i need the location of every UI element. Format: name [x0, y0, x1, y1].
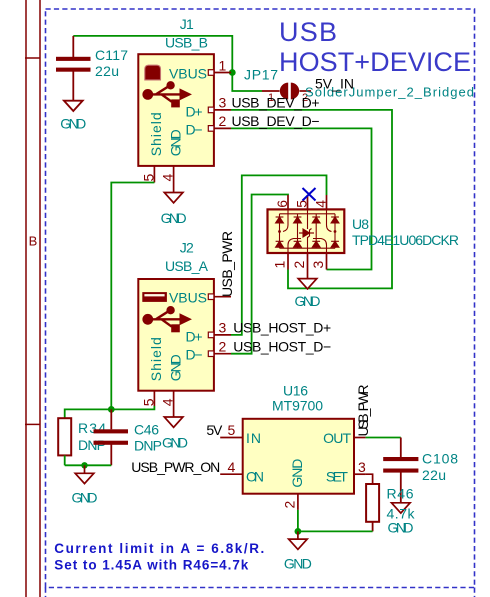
svg-text:USB_PWR: USB_PWR [355, 385, 371, 437]
capacitor C108 [383, 438, 418, 503]
svg-text:1: 1 [219, 57, 227, 73]
svg-text:USB_PWR_ON: USB_PWR_ON [131, 459, 220, 475]
J1 pin 3 D+ [214, 109, 231, 111]
svg-text:3: 3 [219, 320, 227, 336]
svg-text:R46: R46 [387, 486, 414, 502]
U16 body [243, 419, 354, 494]
svg-text:Shield: Shield [148, 112, 164, 156]
J1 pin 5 Shield (bottom) [153, 166, 155, 183]
svg-text:J2: J2 [180, 240, 194, 256]
svg-text:USB_A: USB_A [165, 258, 209, 274]
wire J1 pin1 down to jumper JP17 [232, 73, 262, 92]
J2 pin 4 GND (bottom) [173, 391, 175, 417]
U16 pin 3 SET [354, 473, 366, 475]
U16 pin 4 ON [220, 473, 243, 475]
J1 USB trident icon [143, 82, 191, 108]
connector J1 body [138, 54, 214, 166]
ground symbol below R34/C46 [75, 465, 94, 483]
svg-text:USB_DEV_D+: USB_DEV_D+ [232, 95, 320, 111]
svg-text:4: 4 [228, 459, 236, 475]
svg-text:GND: GND [295, 293, 321, 309]
U8 pin 6 (top) [287, 195, 289, 209]
resistor R46 [366, 484, 379, 531]
ground symbol below C117 [64, 101, 83, 111]
wire rail R34/C46/J2 pin5 [65, 406, 155, 418]
svg-text:U8: U8 [352, 216, 369, 232]
wire U16 OUT to C108 [366, 437, 401, 439]
svg-text:C46: C46 [134, 422, 159, 438]
svg-text:JP17: JP17 [244, 67, 278, 83]
capacitor C46 [94, 409, 129, 465]
svg-text:D+: D+ [186, 104, 203, 120]
wire junction at GND tap [81, 462, 87, 468]
svg-text:2: 2 [219, 113, 227, 129]
svg-text:J1: J1 [180, 16, 194, 32]
J1 pin 4 GND (bottom) [173, 166, 175, 193]
svg-text:22u: 22u [95, 63, 119, 79]
svg-text:R34: R34 [78, 420, 106, 436]
connector J2 body [138, 279, 214, 391]
svg-text:D−: D− [186, 121, 203, 137]
J1 pin 2 D- [214, 127, 231, 129]
U8 pin 2 GND (bottom) [307, 253, 309, 279]
svg-text:5V: 5V [206, 422, 223, 438]
wire junction at C46 top [108, 406, 115, 413]
solder jumper JP17 [280, 83, 299, 100]
U8 center zener diode [299, 229, 314, 238]
svg-text:C108: C108 [422, 451, 458, 467]
wire USB_HOST_D- : U8 pin6 to J2 pin2 [231, 195, 288, 354]
JP17 pin stubs [262, 90, 280, 92]
svg-text:USB_HOST_D+: USB_HOST_D+ [233, 320, 331, 336]
ground symbol below U16 pin 2 [289, 531, 308, 549]
J1 USB-B plug icon [145, 65, 161, 80]
svg-text:SET: SET [326, 469, 348, 485]
svg-text:USB: USB [279, 17, 337, 47]
svg-text:B: B [29, 234, 38, 249]
svg-text:3: 3 [219, 95, 227, 111]
svg-text:5: 5 [228, 422, 236, 438]
svg-text:Shield: Shield [148, 337, 164, 381]
wire USB_HOST_D+ : U8 pin4 to J2 pin3 [231, 175, 327, 335]
svg-text:4.7k: 4.7k [387, 506, 416, 522]
svg-text:D+: D+ [186, 329, 203, 345]
capacitor C117 [56, 36, 91, 101]
svg-text:GND: GND [60, 116, 86, 132]
J2 USB trident icon [143, 307, 191, 333]
svg-text:IN: IN [246, 430, 261, 446]
U8 pin 3 (bottom) [326, 253, 328, 270]
svg-text:4: 4 [160, 398, 176, 406]
svg-text:C117: C117 [95, 47, 128, 63]
svg-text:GND: GND [284, 555, 312, 571]
J2 pin 1 VBUS [214, 296, 231, 298]
J1 pin 1 VBUS [214, 72, 231, 74]
svg-text:GND: GND [72, 490, 98, 506]
U8 diodes (4 top, 4 bottom) [276, 217, 339, 247]
svg-text:2: 2 [291, 261, 307, 269]
U8 pin 5 (top, NC) [307, 195, 309, 209]
U8 internal diode network [278, 209, 336, 253]
svg-text:DNP: DNP [134, 438, 162, 454]
wire U16 SET to R46 [366, 474, 373, 484]
U16 pin 2 GND (bottom) [297, 494, 299, 510]
sheet frame left border lines [25, 0, 40, 597]
wire R46 bottom to U16 GND pin [298, 510, 373, 532]
svg-text:22u: 22u [422, 467, 446, 483]
svg-text:D−: D− [186, 346, 203, 362]
svg-text:VBUS: VBUS [169, 66, 207, 82]
svg-text:GND: GND [161, 210, 187, 226]
ground symbol below U8 pin 2 [298, 279, 317, 289]
J2 pin 2 D- [214, 353, 231, 355]
svg-text:Set to 1.45A with R46=4.7k: Set to 1.45A with R46=4.7k [54, 558, 248, 573]
wire bottom rail R34/C46 to GND [65, 464, 112, 466]
J2 USB-A plug icon [142, 292, 167, 302]
J2 pin 5 Shield (bottom) [153, 391, 155, 406]
svg-text:2: 2 [219, 338, 227, 354]
resistor R34 [58, 418, 71, 455]
ground symbol below J2 pin 4 [164, 417, 183, 427]
wire junction at J1 pin1 [229, 69, 236, 76]
svg-text:1: 1 [272, 261, 288, 269]
svg-text:6: 6 [274, 200, 290, 208]
wire J1 pin5 shield to lower rail [111, 183, 154, 410]
svg-text:GND: GND [289, 459, 305, 488]
wire USB_DEV_D- : J1 pin2 to U8 pin3 [231, 128, 372, 269]
svg-text:2: 2 [281, 501, 297, 509]
svg-text:USB_HOST_D−: USB_HOST_D− [233, 338, 331, 354]
ground symbol below C108 [392, 503, 411, 513]
svg-text:USB_DEV_D−: USB_DEV_D− [232, 113, 320, 129]
U8 pin 1 (bottom) [287, 253, 289, 270]
svg-text:ON: ON [246, 469, 264, 485]
J2 pin 3 D+ [214, 334, 231, 336]
wire junction at U16 GND [295, 528, 302, 535]
svg-text:TPD4E1U06DCKR: TPD4E1U06DCKR [352, 232, 459, 248]
svg-text:GND: GND [168, 129, 184, 156]
svg-text:HOST+DEVICE: HOST+DEVICE [279, 47, 471, 77]
svg-text:USB_B: USB_B [165, 34, 208, 50]
svg-text:GND: GND [168, 354, 184, 381]
svg-text:GND: GND [162, 434, 188, 450]
svg-text:4: 4 [313, 200, 329, 208]
U16 pin OUT [354, 437, 366, 439]
U16 pin 5 IN [220, 437, 243, 439]
svg-text:VBUS: VBUS [169, 290, 207, 306]
svg-text:USB_PWR: USB_PWR [219, 231, 235, 297]
svg-text:GND: GND [388, 520, 414, 536]
svg-text:5: 5 [140, 398, 156, 406]
svg-text:5V_IN: 5V_IN [315, 76, 354, 92]
svg-text:U16: U16 [283, 383, 308, 399]
ESD array U8 body [268, 209, 345, 253]
svg-text:4: 4 [160, 174, 176, 182]
no-connect X on U8 pin 5 [303, 188, 316, 201]
svg-text:3: 3 [358, 459, 366, 475]
svg-text:MT9700: MT9700 [272, 398, 323, 414]
wire VBUS top: C117 to J1 pin1 [73, 36, 232, 73]
svg-text:DNP: DNP [78, 437, 106, 453]
U8 pin 4 (top) [326, 195, 328, 209]
ground symbol below J1 pin 4 [164, 193, 183, 203]
svg-text:3: 3 [310, 261, 326, 269]
svg-text:5: 5 [294, 200, 310, 208]
wire USB_DEV_D+ : J1 pin3 to U8 pin1 [231, 110, 392, 289]
svg-text:5: 5 [140, 174, 156, 182]
svg-text:OUT: OUT [323, 430, 351, 446]
svg-text:Current limit in A = 6.8k/R.: Current limit in A = 6.8k/R. [54, 541, 264, 556]
